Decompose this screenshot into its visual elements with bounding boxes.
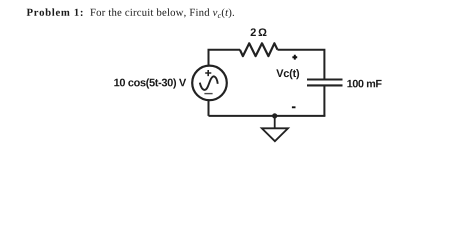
- capacitor C1 top plate: [307, 78, 343, 80]
- title text bold "Problem 1:": [27, 8, 83, 16]
- wire top-right (resistor to corner, down to capacitor): [278, 50, 325, 79]
- capacitor voltage plus sign: [292, 55, 297, 60]
- resistor R1 zigzag: [240, 43, 278, 56]
- voltage source V1 circle: [192, 66, 227, 101]
- junction node dot: [272, 113, 277, 118]
- wire left-lower (source bottom to bottom-left corner): [208, 100, 210, 116]
- ground stub wire: [274, 116, 276, 128]
- capacitor voltage label Vc(t): [276, 69, 299, 79]
- resistor value label 2 ohm: [251, 28, 267, 36]
- capacitor value label 100 mF: [347, 80, 381, 88]
- capacitor C1 bottom plate: [307, 84, 343, 86]
- capacitor voltage minus sign: [292, 106, 296, 108]
- wire bottom: [209, 115, 326, 117]
- title text "For the circuit below, Find vc(t).": [90, 8, 234, 18]
- voltage source polarity minus (inside circle): [204, 93, 212, 95]
- voltage source sine wave: [200, 76, 218, 90]
- wire top-left (from source top up to corner, across to resistor): [209, 50, 241, 66]
- wire right-lower (capacitor to bottom-right corner): [323, 86, 325, 116]
- voltage source polarity plus (inside circle): [205, 70, 211, 76]
- voltage source value label: [114, 78, 186, 88]
- ground symbol triangle: [262, 128, 288, 141]
